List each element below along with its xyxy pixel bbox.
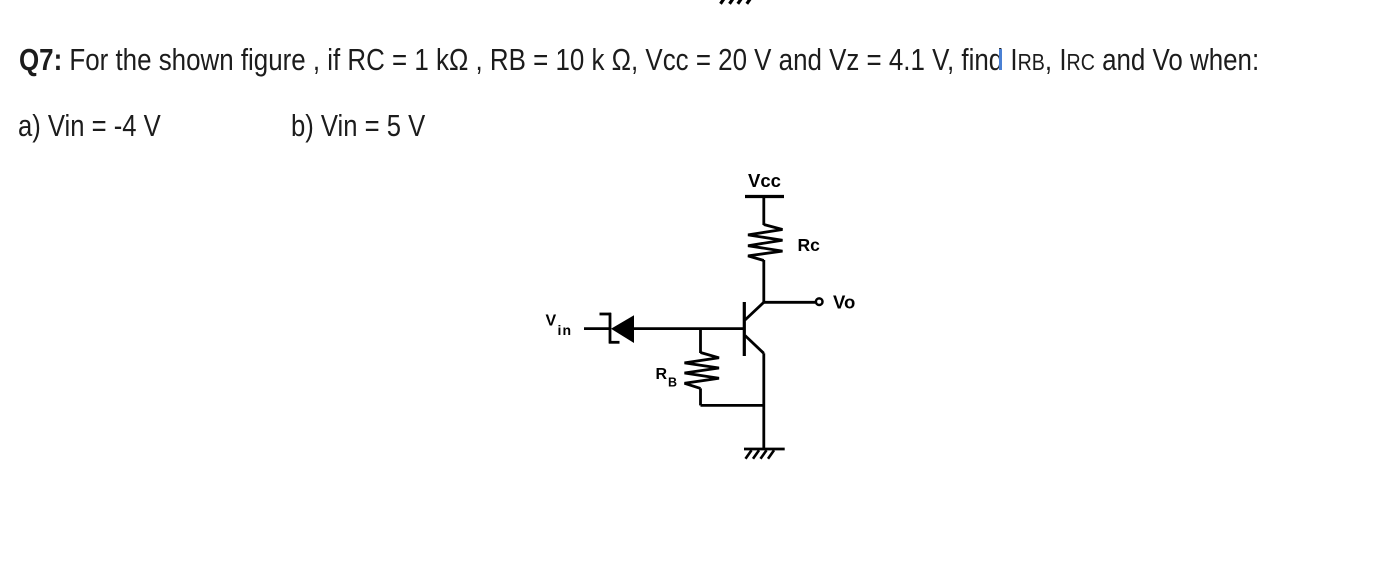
sub-question b	[291, 108, 425, 144]
sub-question a	[18, 108, 161, 144]
Vcc supply bar	[745, 195, 784, 198]
terminal circle Vo	[816, 298, 823, 305]
ground hatch lines	[746, 450, 775, 459]
transistor Q1 emitter lead	[745, 336, 764, 354]
transistor Q1 collector lead	[745, 302, 764, 320]
wire zener to base	[633, 327, 744, 330]
wire collector node to Vo terminal	[764, 301, 815, 304]
wire bottom rail to emitter	[701, 404, 764, 407]
wire Rc to collector node	[762, 260, 765, 302]
wire junction down to RB	[699, 329, 702, 353]
resistor RB	[685, 353, 720, 389]
text cursor caret after "find"	[999, 49, 1002, 70]
svg-text:Rc: Rc	[798, 235, 821, 255]
wire RB to bottom rail	[699, 388, 702, 405]
emitter wire down to ground	[762, 353, 765, 449]
svg-text:V: V	[546, 312, 557, 329]
transistor Q1 base bar	[743, 302, 746, 356]
svg-text:R: R	[656, 366, 668, 383]
resistor Rc	[748, 225, 783, 261]
zener diode D1 triangle	[611, 315, 634, 343]
wire Vcc bar to Rc	[762, 197, 765, 226]
zener bottom bend	[609, 341, 620, 344]
ground bar	[744, 448, 785, 451]
zener diode D1 cathode bar	[609, 313, 612, 344]
question text line 1	[19, 42, 1259, 78]
partial ground (cut off at top edge)	[721, 0, 751, 4]
svg-text:Vcc: Vcc	[748, 170, 781, 191]
zener top bend	[600, 313, 612, 316]
wire Vin to zener	[584, 327, 610, 330]
svg-text:in: in	[558, 322, 573, 338]
svg-text:B: B	[668, 376, 677, 390]
svg-text:Vo: Vo	[833, 292, 855, 313]
